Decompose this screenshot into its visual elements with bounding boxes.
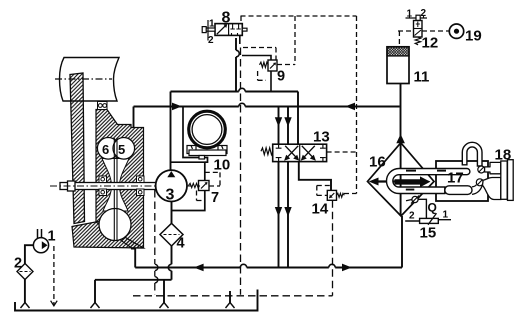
svg-text:2: 2 [208, 35, 214, 46]
svg-text:Q: Q [428, 201, 437, 215]
svg-text:2: 2 [421, 8, 427, 19]
svg-text:12: 12 [422, 35, 439, 52]
svg-text:10: 10 [214, 157, 231, 174]
svg-text:9: 9 [277, 69, 285, 85]
svg-text:3: 3 [166, 187, 175, 204]
svg-text:6: 6 [102, 142, 109, 157]
svg-text:16: 16 [369, 154, 386, 171]
svg-text:1: 1 [209, 18, 215, 29]
svg-text:1: 1 [407, 9, 413, 20]
svg-text:11: 11 [414, 69, 430, 86]
svg-text:1: 1 [48, 229, 56, 245]
svg-text:8: 8 [222, 10, 231, 27]
svg-text:18: 18 [495, 147, 512, 164]
svg-text:5: 5 [118, 142, 125, 157]
svg-text:13: 13 [313, 129, 330, 146]
svg-text:19: 19 [465, 28, 482, 45]
svg-text:14: 14 [312, 201, 329, 218]
svg-text:1: 1 [443, 210, 449, 221]
svg-text:2: 2 [14, 256, 22, 272]
svg-text:17: 17 [447, 170, 464, 187]
svg-text:15: 15 [420, 225, 437, 242]
svg-text:7: 7 [211, 190, 219, 206]
svg-text:4: 4 [177, 236, 185, 252]
svg-text:2: 2 [409, 211, 415, 222]
